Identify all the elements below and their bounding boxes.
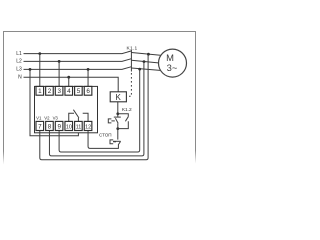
terminal 4 [65,86,73,95]
terminal 6 [84,86,92,95]
wire L1 bus [24,51,132,54]
junction L2-T3 [58,60,61,63]
wire L3 to terminal 6 [87,69,89,86]
stop button [110,129,121,145]
terminal 9 [55,121,63,130]
svg-text:12: 12 [85,124,91,130]
svg-text:СТОП: СТОП [99,133,112,138]
svg-text:3: 3 [57,88,61,95]
svg-text:V3: V3 [53,115,59,120]
svg-text:V1: V1 [36,115,42,120]
relay device U1 [35,86,98,132]
wire terminal 8 to motor line 2 [49,62,143,156]
motor M1 [159,49,187,77]
svg-text:10: 10 [66,124,72,130]
wire L2 bus [24,59,132,62]
junction L1-T1 [38,52,41,55]
svg-text:5: 5 [77,88,81,95]
wire N to terminal 4 [68,77,70,86]
svg-text:L3: L3 [16,67,22,73]
junction motor line 2 tap [143,60,146,63]
terminal 11 [75,121,83,130]
svg-text:K1.1: K1.1 [126,45,137,51]
junction start top [116,112,119,115]
svg-text:4: 4 [67,88,71,95]
contact K1.2 [118,114,129,129]
junction L3 left tap [29,68,32,71]
wire L1 to terminal 1 [39,54,41,87]
wire L3 to terminal 11 [30,69,78,135]
wire coil K to junction [117,102,119,114]
svg-text:2: 2 [48,88,52,95]
junction L3-T6 [87,68,90,71]
wire terminal 7 to motor line 1 [40,54,148,160]
contactor contact K1.1 [131,50,160,72]
coil K [110,92,126,102]
wire terminal 12 to stop button [88,131,118,149]
svg-text:K: K [116,93,122,102]
svg-text:8: 8 [48,123,52,130]
terminal 10 [65,121,73,130]
terminal 1 [36,86,44,95]
junction motor line 3 tap [138,68,141,71]
terminal 3 [55,86,63,95]
svg-text:11: 11 [76,124,82,130]
svg-text:7: 7 [38,123,42,130]
junction start bottom [116,127,119,130]
start button [108,114,121,129]
wire L2 to terminal 3 [58,61,60,86]
svg-text:L2: L2 [16,59,22,65]
svg-text:1: 1 [38,88,42,95]
wire N bus to coil K [24,77,119,92]
svg-text:9: 9 [57,123,61,130]
terminal 8 [46,121,54,130]
mechanical link dashed [127,73,132,96]
junction N-T4 [67,76,70,79]
relay output contact [69,110,88,122]
terminal 12 [84,121,92,130]
junction motor line 1 tap [147,53,150,56]
svg-text:V2: V2 [44,115,50,120]
terminal 7 [36,121,44,130]
svg-text:L1: L1 [16,51,22,57]
svg-text:3~: 3~ [167,62,178,73]
wire terminal 9 to motor line 3 [59,69,140,152]
terminal 2 [46,86,54,95]
svg-text:K1.2: K1.2 [122,107,132,113]
svg-text:N: N [18,75,22,81]
svg-text:6: 6 [86,88,90,95]
wire L3 bus [24,67,132,70]
terminal 5 [75,86,83,95]
